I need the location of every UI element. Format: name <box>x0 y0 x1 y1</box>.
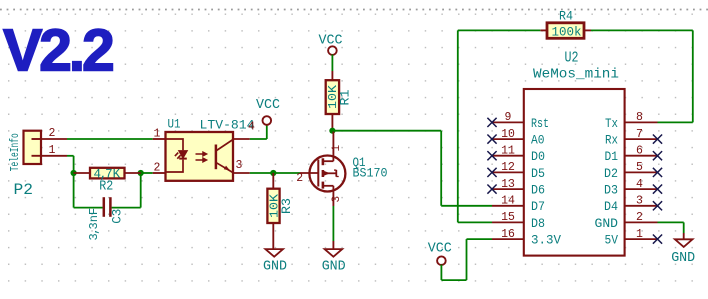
no-connect X on pin 1 <box>653 235 662 244</box>
svg-text:9: 9 <box>505 111 512 124</box>
svg-text:2: 2 <box>296 172 303 185</box>
no-connect X on pin 5 <box>653 168 662 177</box>
svg-text:1: 1 <box>331 145 343 152</box>
svg-text:3: 3 <box>236 159 243 172</box>
no-connect X on pin 4 <box>653 185 662 194</box>
wire VCC to R1 <box>331 55 333 72</box>
svg-text:1: 1 <box>49 144 56 157</box>
power VCC symbol above R1 <box>328 46 337 55</box>
svg-text:D5: D5 <box>531 166 545 181</box>
svg-text:13: 13 <box>501 178 515 191</box>
pin 15 of U2 (D8) <box>492 221 524 223</box>
wire U1 pin3 to junction C <box>250 172 273 174</box>
wire Q1 source to ground <box>332 206 334 241</box>
svg-text:16: 16 <box>501 228 515 241</box>
pin 2 of U2 (GND) <box>625 221 658 223</box>
resistor R1 pins <box>331 71 333 80</box>
pin 1 of U2 (5V) <box>625 238 658 240</box>
svg-text:3: 3 <box>331 196 343 203</box>
svg-text:D6: D6 <box>531 183 545 198</box>
svg-text:8: 8 <box>636 111 643 124</box>
U1 internal phototransistor <box>216 140 233 173</box>
svg-text:Rst: Rst <box>531 116 549 131</box>
svg-text:10: 10 <box>501 128 515 141</box>
svg-text:5: 5 <box>636 161 643 174</box>
svg-text:R2: R2 <box>99 180 113 195</box>
svg-text:Tx: Tx <box>605 116 618 131</box>
transistor Q1 body <box>309 156 345 192</box>
svg-text:V2.2: V2.2 <box>3 18 113 84</box>
svg-text:R4: R4 <box>559 9 573 23</box>
svg-text:D4: D4 <box>604 199 618 214</box>
pin 11 of U2 (D0) <box>492 155 524 157</box>
svg-text:D0: D0 <box>531 149 545 164</box>
wire junction D to Q1 drain <box>332 131 334 156</box>
pin 3 of U1 <box>233 172 250 174</box>
power VCC symbol at U1 <box>263 116 272 125</box>
wire P2 pin1 to junction A <box>67 155 74 157</box>
no-connect X on pin 9 <box>487 118 496 127</box>
wire U1 pin4 to VCC <box>250 138 267 140</box>
svg-text:15: 15 <box>501 211 515 224</box>
svg-text:3,3nF: 3,3nF <box>87 208 101 241</box>
svg-text:TeleInfo: TeleInfo <box>9 133 22 171</box>
svg-text:D3: D3 <box>604 183 618 198</box>
svg-text:2: 2 <box>154 162 161 175</box>
svg-text:4: 4 <box>248 121 255 134</box>
svg-text:5V: 5V <box>605 233 619 248</box>
svg-text:Rx: Rx <box>605 133 618 148</box>
pin 6 of U2 (D1) <box>625 155 658 157</box>
svg-text:VCC: VCC <box>428 242 452 257</box>
pin 1 of P2 <box>32 155 42 157</box>
svg-text:P2: P2 <box>14 181 34 199</box>
pin 2 of Q1 (gate) <box>300 172 318 174</box>
pin 7 of U2 (Rx) <box>625 138 658 140</box>
svg-text:WeMos_mini: WeMos_mini <box>533 66 619 82</box>
resistor R2 body <box>90 168 125 179</box>
svg-text:VCC: VCC <box>319 34 343 49</box>
svg-text:U2: U2 <box>565 49 579 66</box>
no-connect X on pin 11 <box>487 151 496 160</box>
wire junction C to Q1 gate <box>273 172 300 174</box>
resistor R4 body <box>547 23 584 39</box>
capacitor C3 plates <box>103 197 106 217</box>
no-connect X on pin 10 <box>487 135 496 144</box>
wire R4 right to U2 pin8 Tx <box>591 29 693 31</box>
svg-text:U1: U1 <box>168 118 181 132</box>
svg-text:100k: 100k <box>552 24 582 39</box>
wire junction B to U1 pin2 <box>141 172 153 174</box>
op-amp U1 optocoupler body <box>166 132 234 181</box>
ground symbol at U2 GND <box>675 239 693 247</box>
resistor R3 body <box>267 189 279 223</box>
svg-text:R3: R3 <box>280 198 294 214</box>
pin 4 of U1 <box>233 138 250 140</box>
svg-text:BS170: BS170 <box>353 166 388 181</box>
resistor R4 pins <box>540 29 547 31</box>
svg-text:1: 1 <box>636 228 643 241</box>
svg-text:12: 12 <box>501 161 515 174</box>
wire C3 right to junction B <box>112 207 141 209</box>
svg-text:4: 4 <box>636 178 643 191</box>
no-connect X on pin 12 <box>487 168 496 177</box>
svg-text:2: 2 <box>49 127 56 140</box>
svg-text:3.3V: 3.3V <box>531 233 561 248</box>
svg-text:GND: GND <box>322 259 346 274</box>
ground symbol below Q1 <box>325 249 343 257</box>
svg-text:A0: A0 <box>531 133 545 148</box>
svg-text:LTV-814: LTV-814 <box>200 119 255 133</box>
svg-text:C3: C3 <box>110 209 125 224</box>
wire U2 pin2 to ground <box>658 221 684 223</box>
pin 14 of U2 (D7) <box>492 205 524 207</box>
pin 8 of U2 (Tx) <box>625 121 658 123</box>
pin 4 of U2 (D3) <box>625 188 658 190</box>
svg-text:D1: D1 <box>605 149 619 164</box>
pin 5 of U2 (D2) <box>625 171 658 173</box>
pin 12 of U2 (D5) <box>492 171 524 173</box>
svg-text:GND: GND <box>595 216 619 231</box>
svg-text:14: 14 <box>501 195 515 208</box>
no-connect X on pin 7 <box>653 135 662 144</box>
svg-text:D2: D2 <box>604 166 618 181</box>
no-connect X on pin 13 <box>487 185 496 194</box>
pin 3 of U2 (D4) <box>625 205 658 207</box>
svg-text:VCC: VCC <box>256 98 280 113</box>
pin 13 of U2 (D6) <box>492 188 524 190</box>
junction A <box>71 170 77 176</box>
svg-text:1: 1 <box>154 128 161 141</box>
U1 internal LED <box>166 139 187 172</box>
power VCC symbol at U2 3.3V <box>437 256 446 265</box>
svg-text:D7: D7 <box>531 199 545 214</box>
svg-text:2: 2 <box>636 211 643 224</box>
pin 2 of P2 <box>32 138 42 140</box>
pin 9 of U2 (Rst) <box>492 121 524 123</box>
wire P2 pin2 to U1 pin1 <box>67 138 153 140</box>
resistor R1 body <box>326 80 339 114</box>
svg-text:D8: D8 <box>531 216 545 231</box>
wire VCC to U2 pin16 <box>440 265 442 281</box>
connector P2 body <box>24 131 42 164</box>
svg-text:GND: GND <box>263 259 287 274</box>
pin 1 of U1 <box>153 138 166 140</box>
wire junction D to U2 pin14 D7 <box>332 130 441 132</box>
resistor R2 pins <box>74 172 90 174</box>
IC U2 body <box>524 89 625 256</box>
svg-text:7: 7 <box>636 128 643 141</box>
pin 10 of U2 (A0) <box>492 138 524 140</box>
svg-text:3: 3 <box>636 195 643 208</box>
junction D below R1 <box>329 128 335 134</box>
wire junction A down to C3 <box>73 173 75 208</box>
junction B <box>138 170 144 176</box>
svg-text:R1: R1 <box>339 90 353 106</box>
pin 2 of U1 <box>153 172 166 174</box>
pin 3 of Q1 (source) <box>332 191 334 206</box>
pin 16 of U2 (3.3V) <box>492 238 524 240</box>
wire R4 left to U2 pin15 D8 <box>458 29 541 31</box>
svg-text:GND: GND <box>671 251 695 266</box>
junction C <box>270 170 276 176</box>
no-connect X on pin 3 <box>653 201 662 210</box>
svg-text:6: 6 <box>636 145 643 158</box>
U1 coupling arrows <box>196 152 207 162</box>
svg-text:11: 11 <box>501 145 515 158</box>
resistor R3 pins <box>272 173 274 189</box>
no-connect X on pin 6 <box>653 151 662 160</box>
ground symbol below R3 <box>265 249 283 257</box>
